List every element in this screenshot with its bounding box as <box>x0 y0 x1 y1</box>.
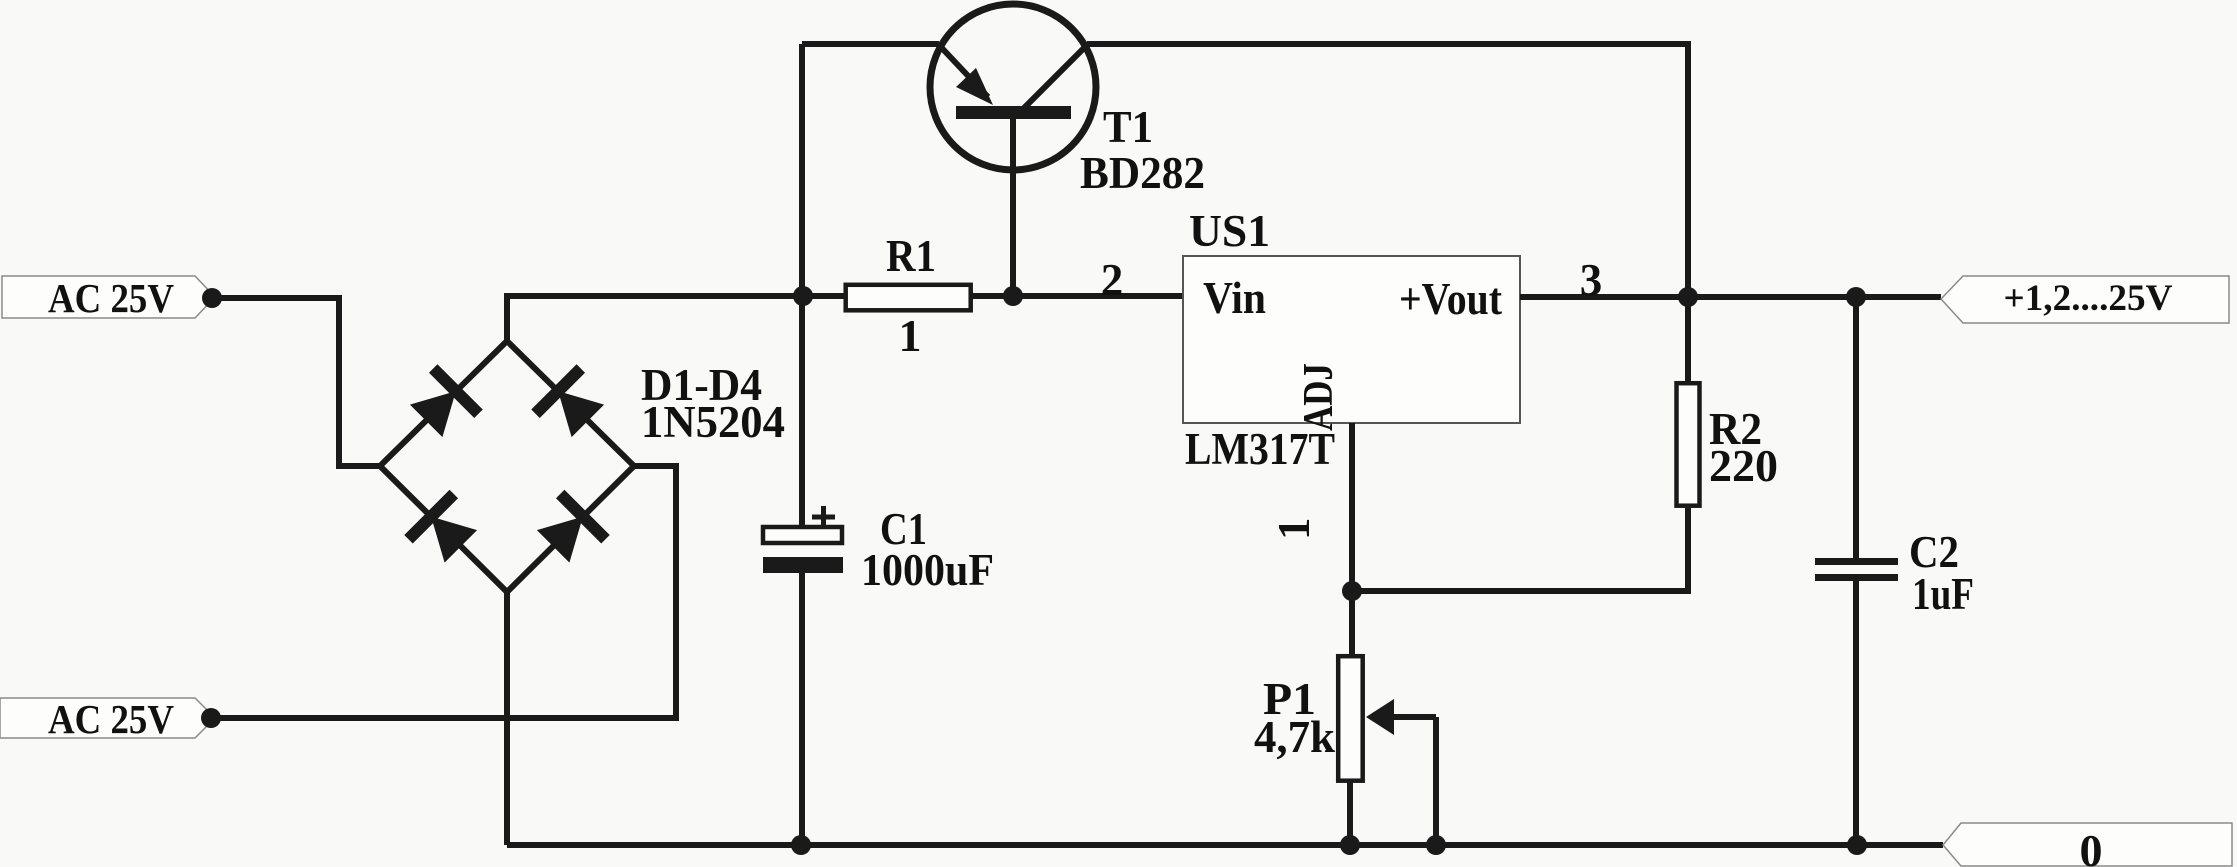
capacitor C1 (electrolytic 1000uF) <box>763 504 994 595</box>
svg-text:1: 1 <box>1269 518 1319 541</box>
wire: bridge top corner to main rail <box>507 296 844 344</box>
svg-text:1N5204: 1N5204 <box>641 397 785 447</box>
diode D3 (bottom-left arm) <box>409 494 478 563</box>
svg-text:2: 2 <box>1101 255 1124 305</box>
resistor R1 <box>846 231 971 361</box>
svg-text:220: 220 <box>1709 441 1778 491</box>
terminal flag 0 (ground) <box>1943 823 2232 867</box>
svg-text:1000uF: 1000uF <box>861 545 994 595</box>
diode D1 (top-left arm) <box>410 369 479 438</box>
svg-text:4,7k: 4,7k <box>1254 712 1335 762</box>
svg-text:AC 25V: AC 25V <box>48 275 174 321</box>
wire: output node down to C2 <box>1853 297 1859 558</box>
wire: ground rail (0 V) <box>507 842 1943 848</box>
wire: bridge bottom corner to ground rail <box>504 589 510 845</box>
node: bottom AC junction dot <box>201 708 221 728</box>
svg-text:R1: R1 <box>886 231 936 281</box>
wire: US1 Vout (pin 3) to output flag <box>1520 294 1941 300</box>
node: junction dot C2/ground <box>1847 835 1867 855</box>
node: junction dot C1/ground <box>791 835 811 855</box>
transistor T1 BD282 <box>930 4 1096 170</box>
svg-text:+Vout: +Vout <box>1399 274 1502 324</box>
wire: vertical branch x=802 (top rail to C1) <box>799 44 805 527</box>
regulator US1 LM317T body <box>1183 206 1520 474</box>
wire: P1 bottom lead to ground rail <box>1347 782 1353 845</box>
resistor R2 <box>1677 383 1779 506</box>
terminal flag AC 25V (bottom) <box>0 696 215 742</box>
svg-text:Vin: Vin <box>1203 273 1266 323</box>
wire: C1 bottom lead to ground rail <box>799 573 805 845</box>
node: junction dot wiper/ground <box>1426 835 1446 855</box>
node: junction dot base/R1 <box>1003 286 1023 306</box>
potentiometer P1 <box>1254 656 1436 845</box>
wire: US1 ADJ lead down to P1 <box>1349 423 1355 656</box>
wire: R1 to US1 Vin (pin 2) <box>971 293 1183 299</box>
wire: C2 bottom lead to ground rail <box>1853 581 1859 845</box>
wire: top AC input to bridge left corner <box>212 298 381 466</box>
node: junction dot ADJ/R2 <box>1342 581 1362 601</box>
wire: bottom AC input to bridge right corner <box>211 466 676 718</box>
wire: R2 bottom to ADJ node <box>1352 508 1688 591</box>
node: junction dot at x=803 on main rail <box>793 286 813 306</box>
node: junction dot output/R2 <box>1678 287 1698 307</box>
svg-text:AC 25V: AC 25V <box>48 696 174 742</box>
terminal flag +1,2....25V (output) <box>1941 276 2229 323</box>
node: junction dot P1/ground <box>1340 835 1360 855</box>
svg-text:+1,2....25V: +1,2....25V <box>2004 278 2173 319</box>
svg-text:US1: US1 <box>1189 206 1270 256</box>
diode D4 (bottom-right arm) <box>537 494 606 563</box>
capacitor C2 (1uF) <box>1815 527 1974 619</box>
svg-text:T1: T1 <box>1103 102 1153 152</box>
diode D2 (top-right arm) <box>536 369 605 438</box>
bridge rectifier D1-D4: diamond wires <box>380 341 634 592</box>
wire: output node down to R2 <box>1685 297 1691 381</box>
svg-text:3: 3 <box>1580 255 1603 305</box>
node: top AC junction dot <box>202 288 222 308</box>
terminal flag AC 25V (top) <box>2 275 215 321</box>
label D1-D4 / 1N5204 <box>641 360 785 447</box>
node: junction dot output/C2 <box>1846 287 1866 307</box>
svg-text:BD282: BD282 <box>1080 148 1205 198</box>
svg-text:1uF: 1uF <box>1912 569 1974 619</box>
label T1 / BD282 <box>1080 102 1205 198</box>
wire: top bypass rail (collector side) to output node <box>1087 44 1688 296</box>
svg-text:1: 1 <box>899 310 922 361</box>
svg-text:0: 0 <box>2080 825 2103 867</box>
wire: T1 base lead down to node 2 <box>1010 119 1016 296</box>
wire: top bypass rail (emitter side) <box>802 41 939 47</box>
svg-text:ADJ: ADJ <box>1296 363 1342 431</box>
